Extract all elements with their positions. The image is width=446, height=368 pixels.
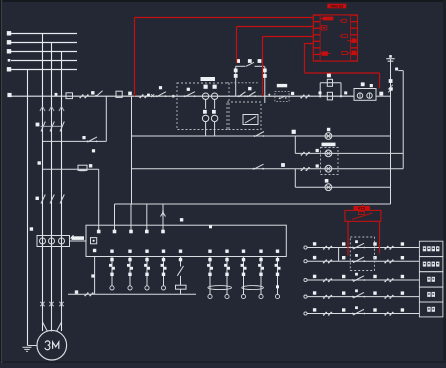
svg-text:KM2:S3: KM2:S3 bbox=[331, 5, 344, 9]
svg-text:KT:S: KT:S bbox=[358, 206, 365, 210]
